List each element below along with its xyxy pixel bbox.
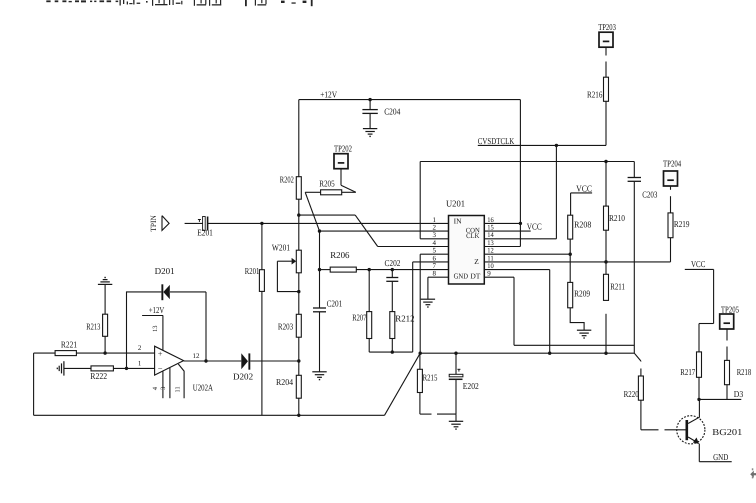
svg-text:+12V: +12V bbox=[149, 305, 165, 315]
svg-text:TP205: TP205 bbox=[721, 305, 739, 315]
svg-text:GND: GND bbox=[454, 272, 469, 281]
svg-text:3: 3 bbox=[160, 387, 167, 390]
svg-text:C201: C201 bbox=[327, 298, 343, 308]
svg-text:R201: R201 bbox=[245, 266, 259, 276]
svg-text:Z: Z bbox=[474, 257, 479, 266]
svg-text:TPIN: TPIN bbox=[149, 215, 158, 232]
svg-text:R209: R209 bbox=[574, 289, 590, 299]
svg-text:TP202: TP202 bbox=[334, 144, 352, 154]
svg-text:D202: D202 bbox=[233, 371, 253, 381]
svg-text:VCC: VCC bbox=[691, 259, 705, 269]
svg-text:R204: R204 bbox=[276, 377, 294, 387]
svg-text:+12V: +12V bbox=[320, 89, 337, 99]
svg-text:1: 1 bbox=[138, 360, 142, 368]
svg-text:R205: R205 bbox=[319, 179, 335, 189]
svg-text:E201: E201 bbox=[197, 227, 213, 237]
svg-text:C202: C202 bbox=[385, 258, 401, 268]
svg-text:R202: R202 bbox=[280, 174, 294, 184]
svg-text:IN: IN bbox=[454, 217, 462, 226]
svg-text:D3: D3 bbox=[734, 389, 744, 399]
svg-text:9: 9 bbox=[487, 270, 491, 278]
svg-text:BG201: BG201 bbox=[712, 427, 742, 437]
svg-text:DT: DT bbox=[470, 272, 480, 281]
svg-text:2: 2 bbox=[138, 344, 142, 352]
svg-text:R207: R207 bbox=[352, 313, 366, 323]
svg-text:R206: R206 bbox=[330, 250, 350, 260]
svg-text:W201: W201 bbox=[272, 242, 290, 252]
svg-text:13: 13 bbox=[152, 325, 159, 332]
svg-text:R208: R208 bbox=[574, 220, 592, 230]
svg-text:R221: R221 bbox=[61, 340, 77, 350]
svg-text:11: 11 bbox=[174, 386, 181, 392]
svg-text:R203: R203 bbox=[278, 322, 294, 332]
svg-text:R219: R219 bbox=[674, 219, 690, 229]
svg-text:R213: R213 bbox=[86, 322, 100, 332]
svg-text:U201: U201 bbox=[446, 199, 465, 209]
svg-text:−: − bbox=[158, 363, 163, 373]
svg-text:TP203: TP203 bbox=[598, 22, 616, 32]
svg-text:R220: R220 bbox=[624, 389, 640, 399]
svg-text:GND: GND bbox=[713, 452, 729, 462]
svg-text:12: 12 bbox=[193, 352, 201, 360]
svg-text:CVSDTCLK: CVSDTCLK bbox=[478, 136, 515, 146]
svg-text:R211: R211 bbox=[610, 281, 625, 291]
svg-text:+: + bbox=[158, 348, 163, 358]
svg-text:C203: C203 bbox=[642, 189, 658, 199]
svg-text:R222: R222 bbox=[90, 371, 107, 381]
svg-text:R217: R217 bbox=[680, 367, 695, 377]
svg-text:TP204: TP204 bbox=[663, 159, 682, 169]
svg-text:C204: C204 bbox=[384, 107, 401, 117]
svg-text:VCC: VCC bbox=[527, 221, 542, 231]
svg-text:D201: D201 bbox=[155, 266, 175, 276]
svg-text:VCC: VCC bbox=[576, 183, 592, 193]
svg-text:8: 8 bbox=[433, 270, 437, 278]
svg-text:CLK: CLK bbox=[466, 232, 479, 240]
svg-text:U202A: U202A bbox=[193, 383, 214, 393]
svg-text:R212: R212 bbox=[395, 314, 414, 324]
svg-text:R218: R218 bbox=[737, 367, 752, 377]
svg-text:R216: R216 bbox=[587, 90, 603, 100]
svg-text:E202: E202 bbox=[463, 381, 479, 391]
svg-text:R215: R215 bbox=[423, 372, 438, 382]
svg-text:R210: R210 bbox=[609, 213, 625, 223]
